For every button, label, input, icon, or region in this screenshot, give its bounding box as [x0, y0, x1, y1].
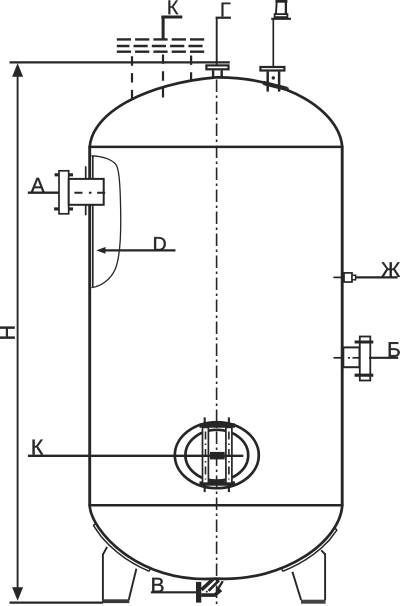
- label A: [31, 178, 45, 192]
- left leg pad end caps: [93, 524, 150, 572]
- manhole left bolt centerline: [205, 432, 207, 480]
- nozzle G pipe open end: [216, 17, 231, 19]
- label D(cyr) top bar: [275, 0, 287, 3]
- nozzle D neck left: [266, 72, 269, 92]
- label V: [152, 578, 163, 592]
- nozzle Zh body: [344, 273, 352, 282]
- label B(cyr): [389, 342, 400, 356]
- hidden vertical dashed line 3: [190, 56, 192, 80]
- hidden internal dashed line row 1: [117, 38, 206, 40]
- hidden internal dashed line row 3: [117, 51, 206, 53]
- right leg pad arc: [283, 530, 337, 572]
- left leg pad arc: [93, 525, 149, 571]
- nozzle B pipe: [343, 347, 359, 367]
- right leg right edge: [324, 553, 326, 600]
- bottom head weld seam: [88, 504, 343, 507]
- manhole stud top right: [228, 417, 230, 423]
- manhole stud top left: [204, 417, 206, 423]
- diameter D arrowhead: [96, 247, 105, 254]
- label D(cyr) left stroke: [275, 0, 278, 14]
- manhole stud bottom right: [228, 486, 230, 492]
- nozzle B centerline dash: [353, 357, 360, 359]
- left leg foot: [102, 599, 129, 603]
- nozzle G neck right: [220, 70, 222, 78]
- label D diameter: [154, 237, 166, 250]
- nozzle D stem: [272, 20, 274, 67]
- right leg pad end caps: [282, 528, 337, 571]
- nozzle G neck left: [212, 70, 214, 78]
- manhole bottom bar: [200, 481, 236, 485]
- dimension H bottom arrowhead: [12, 587, 23, 601]
- dimension H line: [17, 70, 19, 594]
- hidden vertical dashed line 2: [162, 55, 164, 101]
- hidden vertical dashed line 1: [131, 56, 133, 100]
- drain V bore dot: [206, 591, 208, 593]
- label K top: [168, 0, 178, 14]
- drain V riser wall C: [216, 581, 222, 591]
- nozzle Zh inner tick: [333, 276, 341, 278]
- nozzle D underline: [271, 18, 291, 20]
- nozzle A centerline: [74, 192, 107, 194]
- left leg left edge: [102, 554, 104, 600]
- nozzle D neck right: [278, 72, 281, 92]
- nozzle Zh end: [352, 275, 356, 280]
- hidden internal dashed line row 2: [117, 45, 206, 47]
- right leg top diagonal: [321, 550, 325, 554]
- manhole leader from K: [28, 455, 243, 457]
- nozzle D reinforcing pad lower edge: [263, 84, 288, 90]
- manhole top bar: [200, 423, 236, 427]
- manhole inner ring: [185, 430, 248, 481]
- nozzle A bottom bolt: [54, 207, 73, 210]
- label D(cyr) base box: [275, 14, 288, 17]
- nozzle G flange: [206, 65, 228, 69]
- manhole stud bottom left: [204, 486, 206, 492]
- manhole right flange rect: [226, 427, 232, 483]
- nozzle B leader: [369, 357, 398, 359]
- label H: [0, 327, 15, 339]
- bottom elliptical head: [90, 505, 343, 579]
- internal pad oval: [92, 156, 121, 288]
- nozzle G pipe: [216, 18, 218, 65]
- nozzle B centerline dot: [348, 357, 350, 359]
- drain V riser wall A: [202, 579, 214, 590]
- right leg left edge: [292, 572, 301, 600]
- label K left: [33, 440, 44, 455]
- nozzle A flange: [59, 171, 69, 214]
- nozzle A leader: [28, 192, 60, 194]
- nozzle B bottom bolt: [355, 374, 374, 377]
- top elliptical head: [90, 77, 343, 147]
- right leg foot: [301, 600, 326, 604]
- nozzle B top bolt: [355, 340, 374, 343]
- vessel shell right wall: [341, 146, 344, 506]
- nozzle A pipe: [69, 179, 104, 205]
- dimension H top arrowhead: [12, 63, 23, 77]
- left leg right edge: [129, 569, 137, 600]
- drain V riser centerline B: [209, 580, 219, 590]
- nozzle B inner tick: [334, 357, 343, 359]
- nozzle D reinforcing pad upper edge: [263, 82, 287, 88]
- drain V bottom band: [201, 590, 221, 595]
- label Zh: [381, 262, 400, 276]
- leader underline of K top: [161, 16, 182, 19]
- label G: [222, 3, 231, 17]
- top head weld seam: [88, 146, 343, 149]
- dimension H bottom extension line: [10, 601, 104, 603]
- nozzle B flange: [360, 337, 371, 381]
- leader vertical from K top: [162, 17, 165, 41]
- nozzle D flange: [260, 67, 284, 71]
- nozzle Zh leader: [356, 276, 398, 278]
- nozzle A top bolt: [55, 173, 73, 176]
- vessel shell left wall: [88, 146, 91, 506]
- left leg top diagonal: [103, 547, 107, 555]
- manhole right bolt centerline: [228, 432, 230, 480]
- nozzle D reinforcing pad end caps: [263, 82, 288, 91]
- internal pad oval left edge: [92, 157, 94, 288]
- manhole left flange rect: [203, 427, 209, 483]
- label D(cyr) right stroke: [285, 0, 287, 14]
- manhole outer ring: [175, 422, 259, 488]
- nozzle A pad edge: [85, 166, 87, 215]
- nozzle D centerline dot: [272, 76, 275, 79]
- diameter D leader line: [100, 249, 176, 251]
- drain V flange bar: [196, 582, 201, 603]
- dimension H top extension line: [10, 61, 230, 63]
- manhole central nut: [210, 452, 225, 460]
- drain V leader: [151, 591, 198, 593]
- vessel vertical centerline: [216, 80, 218, 605]
